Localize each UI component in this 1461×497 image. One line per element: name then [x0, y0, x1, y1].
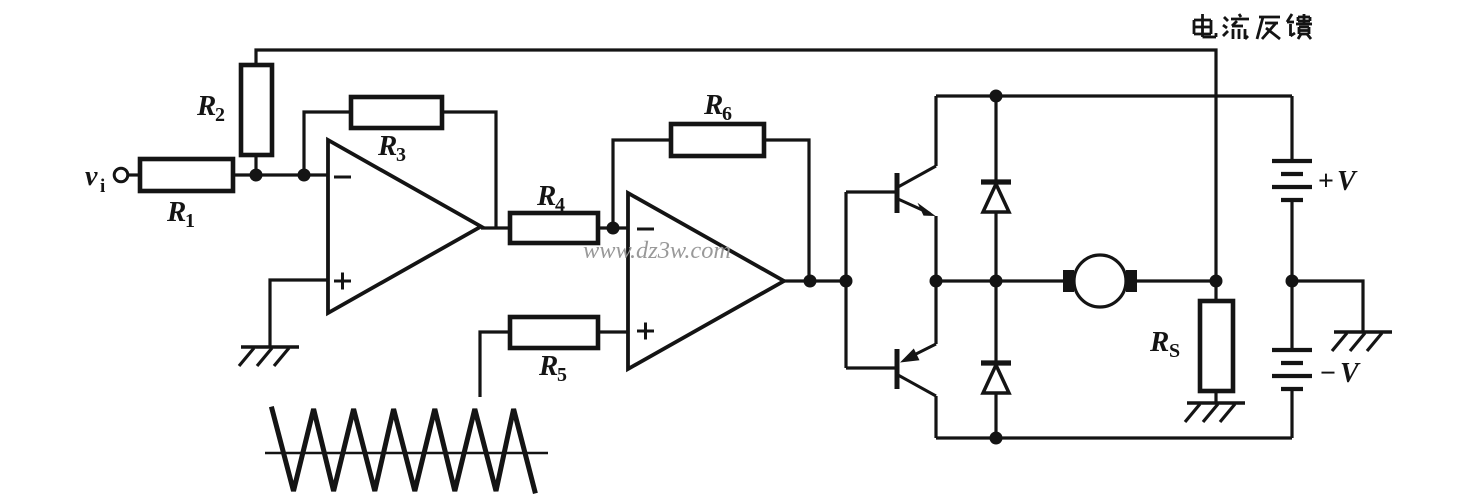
wire U1 output: [481, 226, 510, 229]
node motor rail / diodes: [990, 275, 1003, 288]
resistor R6: [671, 124, 764, 156]
svg-text:R: R: [538, 350, 558, 382]
svg-text:R: R: [1149, 326, 1169, 358]
svg-text:4: 4: [555, 194, 565, 216]
wire input to R1: [129, 173, 141, 176]
transistor Q1: [897, 166, 936, 216]
wire -V battery to bottom rail: [1290, 389, 1293, 438]
wire R5 to U2 non-inverting input: [598, 330, 628, 333]
op-amp U2: [628, 193, 784, 369]
svg-text:1: 1: [185, 210, 195, 232]
wire midpoint to ground: [1292, 281, 1363, 332]
wire Q2 collector to -V rail: [934, 396, 937, 438]
watermark: [583, 238, 731, 264]
svg-text:+: +: [1318, 166, 1334, 197]
wire current-feedback rail (R2 top across to right): [256, 50, 1216, 301]
svg-text:−: −: [1320, 358, 1336, 389]
label RS: [1149, 326, 1180, 362]
svg-text:v: v: [85, 161, 98, 192]
svg-text:S: S: [1169, 340, 1180, 362]
svg-text:V: V: [1340, 358, 1361, 389]
transistor Q2: [897, 344, 936, 396]
svg-text:3: 3: [396, 144, 406, 166]
node emitters junction: [930, 275, 943, 288]
wire Q1 base lead: [846, 190, 895, 193]
ground (battery midpoint): [1332, 332, 1392, 351]
triangle waveform axis: [265, 452, 548, 454]
wire Q1 emitter to output node: [934, 216, 937, 281]
node input junction (R3 tap): [298, 169, 311, 182]
motor M: [1063, 255, 1137, 307]
wire output rail to motor: [936, 279, 1064, 282]
wire U2 output: [784, 279, 848, 282]
ground (U1 + input): [239, 347, 299, 366]
svg-text:6: 6: [722, 103, 732, 125]
node battery midpoint: [1286, 275, 1299, 288]
diode D2: [981, 281, 1011, 438]
label +V: [1318, 166, 1358, 197]
input terminal: [114, 168, 128, 182]
label R3: [377, 130, 406, 166]
svg-text:i: i: [100, 176, 105, 197]
resistor R3: [351, 97, 442, 128]
label vi: [85, 161, 105, 197]
node U2 output / R6: [804, 275, 817, 288]
resistor R1: [140, 159, 233, 191]
resistor R5: [510, 317, 598, 348]
svg-text:R: R: [196, 90, 216, 122]
node sense junction (motor / RS / feedback): [1210, 275, 1223, 288]
node top rail / D1: [990, 90, 1003, 103]
svg-text:2: 2: [215, 104, 225, 126]
wire Q1 collector to +V rail: [934, 96, 937, 166]
label R5: [538, 350, 567, 386]
resistor R2: [241, 65, 272, 155]
label 电流反馈 (drawn as paths): [1194, 14, 1312, 39]
diode D1: [981, 96, 1011, 281]
svg-text:R: R: [166, 196, 186, 228]
wire R3 feedback left: [304, 112, 351, 175]
node base drive: [840, 275, 853, 288]
wire +V battery to midpoint: [1290, 200, 1293, 350]
node U2 inverting input: [607, 222, 620, 235]
svg-text:V: V: [1337, 166, 1358, 197]
svg-text:5: 5: [557, 364, 567, 386]
svg-text:R: R: [536, 180, 556, 212]
wire base bus vertical: [844, 192, 847, 368]
wire +V top rail: [936, 94, 1292, 97]
wire U1 non-inverting input: [270, 280, 328, 347]
node bottom rail / D2: [990, 432, 1003, 445]
svg-text:www.dz3w.com: www.dz3w.com: [583, 238, 731, 264]
wire R6 feedback right: [764, 140, 809, 281]
wire RS to ground: [1214, 391, 1217, 403]
label -V: [1320, 358, 1361, 389]
label R2: [196, 90, 225, 126]
label R4: [536, 180, 565, 216]
wire Q2 base lead: [846, 366, 895, 369]
svg-text:R: R: [703, 89, 723, 121]
op-amp U1: [328, 140, 481, 313]
label R6: [703, 89, 732, 125]
ground (RS): [1185, 403, 1245, 422]
wire R2 bottom lead: [254, 155, 257, 175]
wire R5 left lead to triangle-wave source: [480, 332, 510, 397]
wire -V bottom rail: [936, 436, 1292, 439]
wire Q2 emitter to output node: [934, 281, 937, 344]
node input junction (R2 tap): [250, 169, 263, 182]
wire motor to sense node: [1137, 279, 1216, 282]
wire R1 to op-amp U1 inverting input: [233, 173, 328, 176]
wire R6 feedback left: [613, 140, 671, 228]
wire top rail to +V battery: [1290, 96, 1293, 161]
battery -V: [1272, 350, 1312, 389]
battery +V: [1272, 161, 1312, 200]
wire R4 to U2 inverting input: [598, 226, 628, 229]
resistor R4: [510, 213, 598, 243]
resistor RS: [1200, 301, 1233, 391]
svg-text:R: R: [377, 130, 397, 162]
wire R3 feedback right: [442, 112, 496, 228]
triangle waveform: [272, 409, 535, 491]
label R1: [166, 196, 195, 232]
